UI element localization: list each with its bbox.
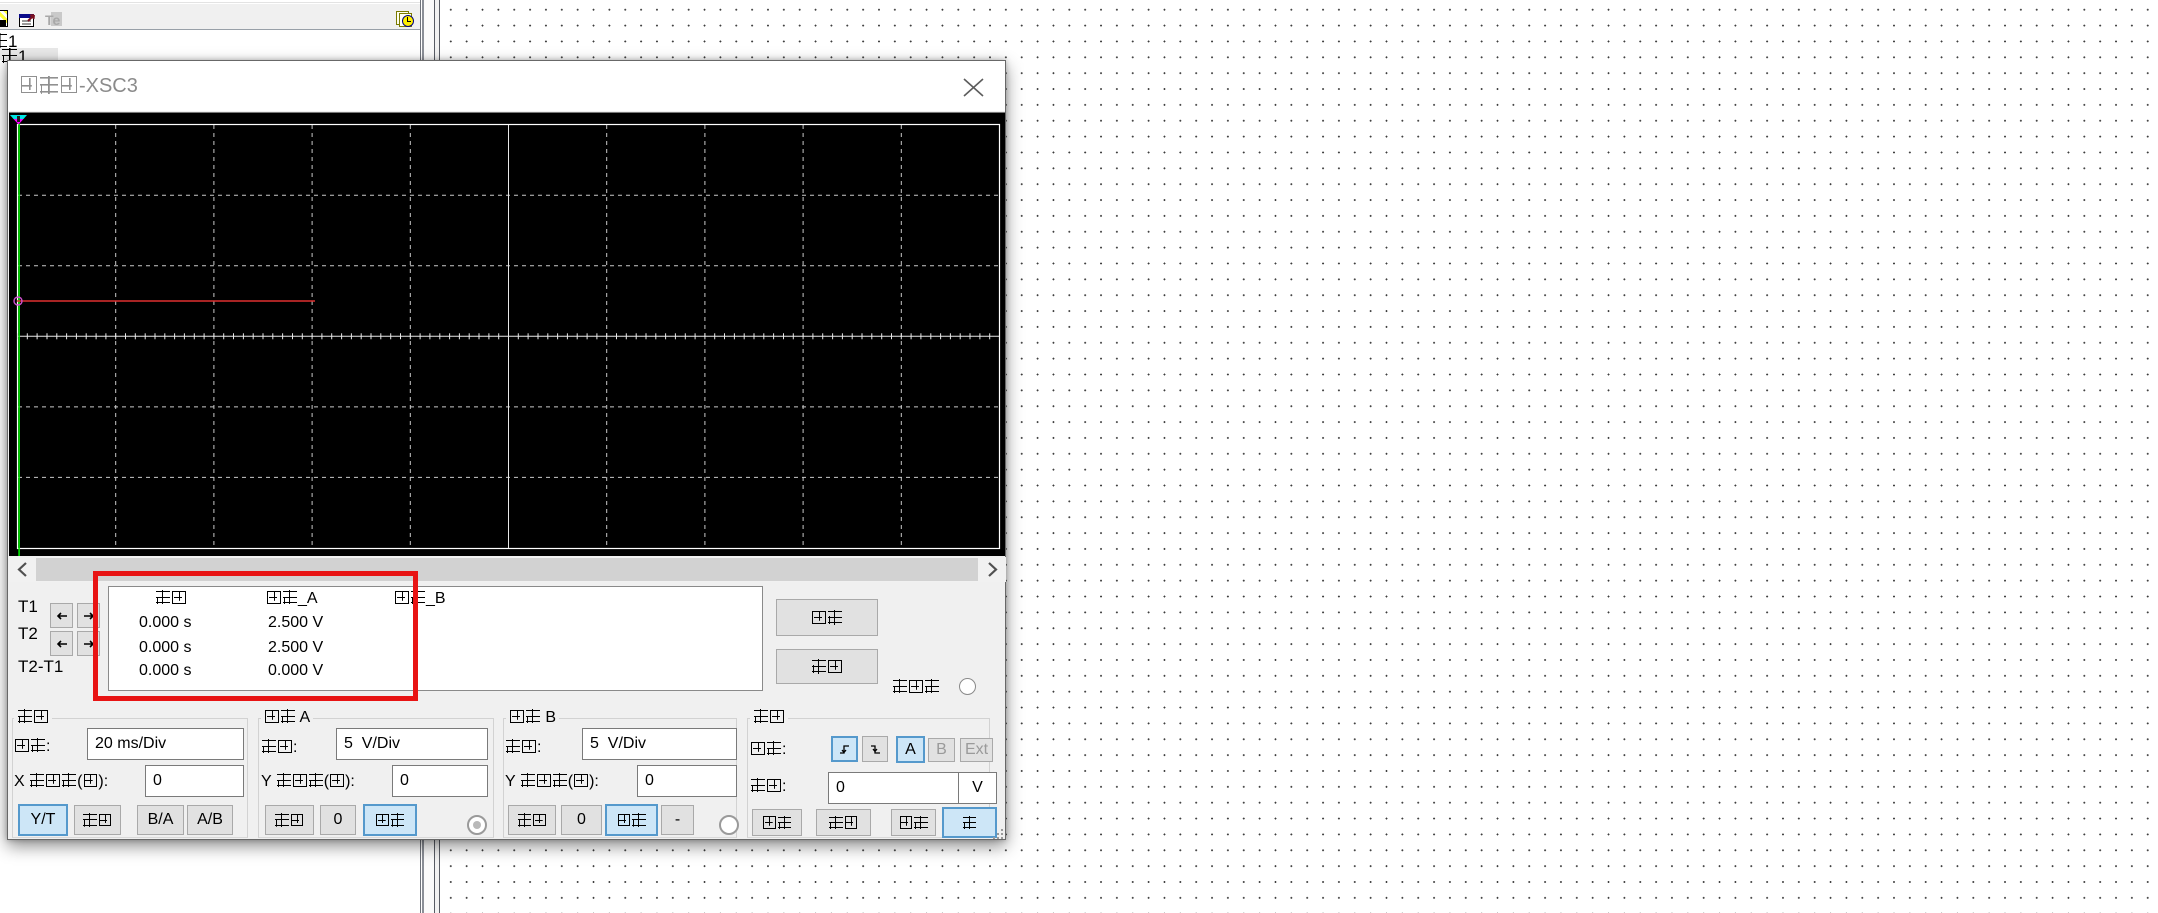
table headers/rows [155, 590, 187, 608]
panel right border + splitter [420, 0, 421, 913]
toolbar icon: new/hatched [0, 10, 8, 27]
scrollbar [9, 557, 1006, 582]
solid centre vertical line [508, 125, 510, 548]
channel A trace [17, 300, 315, 302]
trigger marker [10, 115, 27, 119]
group: 触发 [747, 718, 990, 838]
dotted schematic canvas background [433, 0, 2158, 913]
toolbar icon: window w/ arrow [19, 14, 34, 27]
group: 通道 A [258, 718, 494, 838]
group: 时基 [12, 718, 248, 838]
toolbar icon: pages with clock [396, 11, 409, 25]
centre axis with ticks [18, 335, 999, 337]
inner frame [18, 125, 1000, 549]
dashed vertical gridlines [116, 125, 902, 548]
green time cursor [18, 124, 20, 556]
resize grip [993, 829, 1005, 840]
group: 通道 B [503, 718, 737, 838]
measurement area [108, 586, 763, 691]
title bar [8, 61, 1005, 111]
dashed horizontal gridlines [18, 195, 999, 477]
scope display [9, 112, 1005, 556]
toolbar icon: Te (disabled) [51, 12, 62, 26]
right buttons [776, 599, 878, 636]
tree text 计1 / 设计1 [0, 32, 17, 52]
red highlight box over table [93, 571, 418, 701]
